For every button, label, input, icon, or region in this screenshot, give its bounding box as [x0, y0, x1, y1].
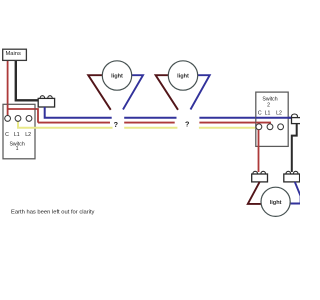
- switch 1 labels: [5, 132, 31, 152]
- svg-text:1: 1: [16, 146, 19, 152]
- wire: red from switch2 C down to lamp connector J3: [258, 130, 260, 172]
- wire: blue bus segment 3 to connector J2: [199, 117, 293, 119]
- svg-text:2: 2: [267, 102, 270, 108]
- wire: blue bus segment 2: [124, 117, 176, 119]
- wire: red bus segment 3 to Switch2 L1: [199, 123, 270, 125]
- connector block J4 (right lamp connector): [284, 171, 300, 182]
- svg-text:Switch: Switch: [262, 97, 277, 103]
- svg-text:L1: L1: [14, 132, 20, 138]
- node ? unknown junction 2: [185, 120, 189, 129]
- wire: blue bus over switch2 box: [256, 117, 294, 119]
- svg-text:C: C: [5, 132, 9, 138]
- terminal L1 switch1: [15, 116, 21, 122]
- terminal C switch1: [5, 116, 11, 122]
- wire: blue drop light2 right: [191, 75, 210, 109]
- svg-text:Mains: Mains: [5, 51, 21, 57]
- wire: red branch from live drop to red bus: [8, 109, 38, 123]
- terminal C switch2: [256, 124, 262, 130]
- lamp light3: [261, 187, 290, 216]
- lamp light2: [168, 61, 197, 90]
- lamp light1: [102, 61, 131, 90]
- svg-text:?: ?: [114, 120, 118, 129]
- wire: red live from Mains down to Switch1 terminal C: [7, 61, 9, 116]
- svg-text:light: light: [111, 74, 123, 80]
- wire: red bus segment 1: [38, 122, 110, 124]
- wire: black from Mains to connector block J1: [16, 61, 39, 100]
- wire: red bus segment 2: [124, 122, 175, 124]
- switch 1 box: [3, 104, 35, 159]
- wire: yellow bus segment 3 to Switch2 C: [199, 127, 256, 129]
- svg-text:L2: L2: [25, 132, 31, 138]
- svg-text:?: ?: [185, 120, 189, 129]
- switch 2 box: [256, 92, 288, 146]
- terminal L2 switch1: [26, 116, 32, 122]
- svg-text:C: C: [258, 110, 262, 116]
- svg-text:L2: L2: [276, 110, 282, 116]
- wire: red bus over switch2 box to L1: [256, 123, 270, 125]
- wire: blue from J4 to light3: [290, 182, 301, 204]
- wire: yellow into switch2 C: [255, 127, 257, 129]
- connector block J1: [38, 96, 54, 107]
- terminal L1 switch2: [267, 124, 273, 130]
- svg-text:light: light: [177, 74, 189, 80]
- wire: black from J2 down to lamp connector J4: [292, 124, 297, 172]
- wire: maroon drop light1 left: [88, 75, 111, 110]
- connector block J3 (left lamp connector): [252, 171, 268, 182]
- connector block J2: [292, 114, 302, 124]
- note: earth disclaimer text: [11, 209, 95, 215]
- svg-text:Earth has been left out for cl: Earth has been left out for clarity: [11, 209, 95, 215]
- svg-text:L1: L1: [265, 110, 271, 116]
- wire: blue from J1 down to blue bus segment 1: [45, 107, 112, 118]
- wire: maroon from J3 to light3: [248, 182, 261, 204]
- terminal L2 switch2: [278, 124, 284, 130]
- switch 2 labels: [258, 97, 282, 117]
- wire: red segment inside switch1 (live drop re-drawn over box): [8, 104, 35, 115]
- wire: blue drop light1 right: [123, 75, 143, 109]
- svg-text:light: light: [270, 200, 282, 206]
- wire: maroon drop light2 left: [156, 75, 178, 110]
- node ? unknown junction 1: [114, 120, 118, 129]
- wire: yellow from Switch1 L1 down to yellow bus segment 1: [18, 121, 113, 127]
- wire: yellow bus segment 2: [124, 127, 177, 129]
- Mains box: [3, 49, 27, 60]
